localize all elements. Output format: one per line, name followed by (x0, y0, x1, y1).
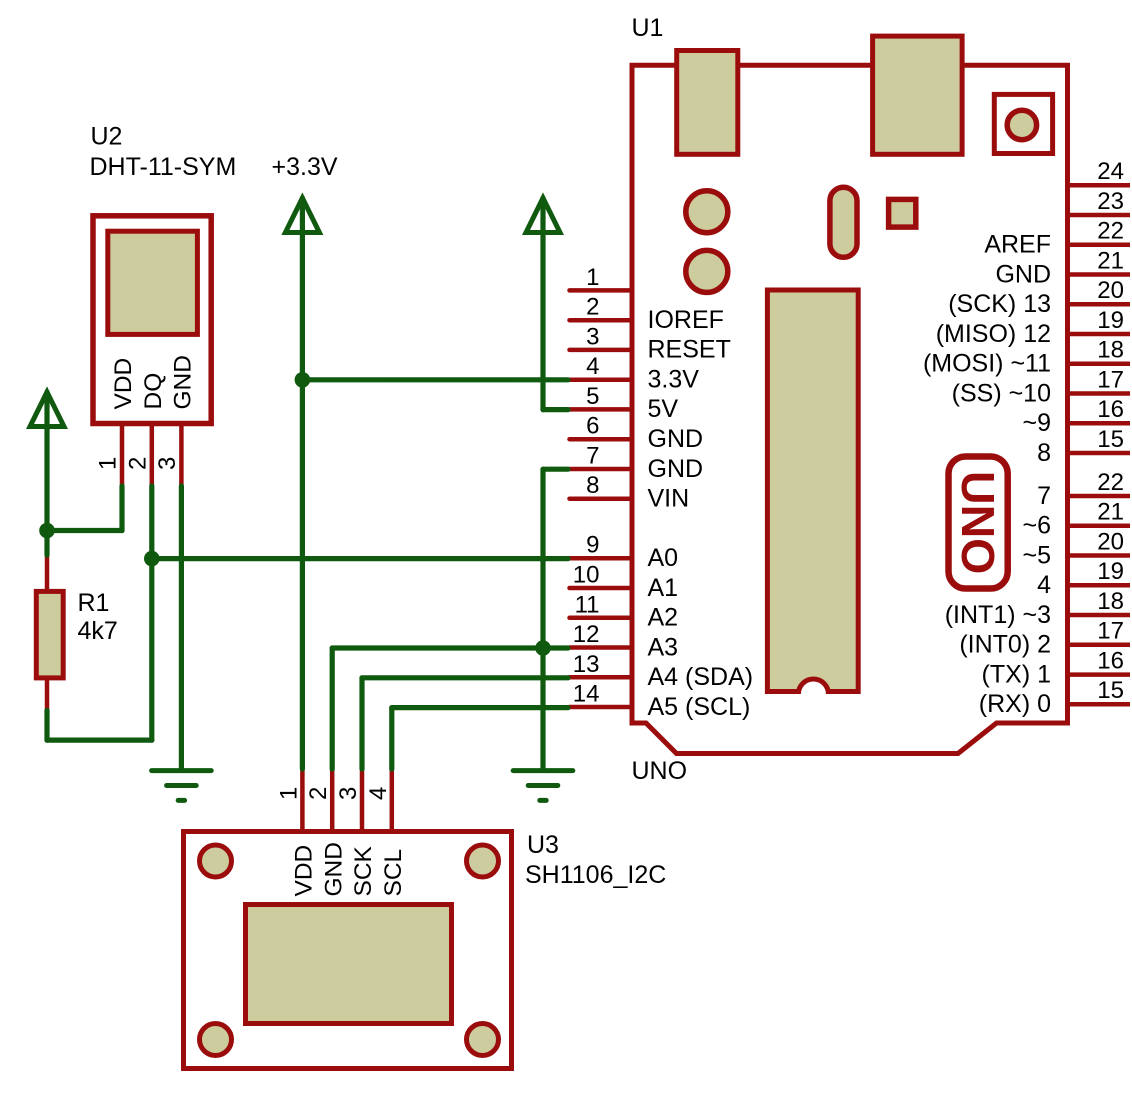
resistor R1 body (36, 591, 63, 678)
U1 right pin 18 stub (1070, 362, 1130, 367)
svg-text:18: 18 (1097, 337, 1124, 364)
svg-text:UNO: UNO (952, 471, 1004, 574)
U1 pin 11 stub (570, 616, 633, 621)
U1 right pin 23 stub (1070, 213, 1130, 218)
U1 pin 4 stub (570, 377, 633, 382)
svg-text:U3: U3 (527, 831, 559, 859)
wire +3.3V arrow to junction and R1 (44, 392, 49, 555)
svg-text:23: 23 (1097, 188, 1124, 215)
svg-text:11: 11 (575, 591, 600, 618)
U1 USB connector (677, 51, 738, 155)
svg-text:22: 22 (1097, 469, 1124, 496)
U1 pin 12 stub (570, 645, 633, 650)
junction node +3.3V / R1 / U2-VDD (39, 523, 55, 539)
svg-text:3.3V: 3.3V (648, 366, 700, 394)
svg-text:17: 17 (1097, 366, 1124, 393)
svg-text:(INT0) 2: (INT0) 2 (959, 631, 1051, 659)
wire DQ to A0 (152, 556, 568, 561)
svg-text:7: 7 (1037, 482, 1051, 510)
svg-text:17: 17 (1097, 618, 1124, 645)
svg-text:VDD: VDD (291, 845, 318, 897)
svg-text:1: 1 (95, 457, 122, 470)
U1 pin 7 stub (570, 467, 633, 472)
U1 right pin 22 stub (1070, 242, 1130, 247)
svg-text:UNO: UNO (632, 757, 688, 785)
svg-text:RESET: RESET (648, 336, 731, 364)
svg-text:GND: GND (170, 355, 197, 409)
U1 IC notch (798, 679, 828, 694)
U1 right pin 22 stub (1070, 494, 1130, 499)
U1 ATmega IC rectangle (767, 290, 858, 692)
U1 right pin 21 stub (1070, 524, 1130, 529)
R1 bottom stub (45, 678, 50, 710)
U3 mounting hole bottom-left (200, 1024, 232, 1056)
U1 right pin 20 stub (1070, 553, 1130, 558)
U1 mounting hole bottom (686, 250, 728, 292)
svg-text:3: 3 (586, 323, 599, 350)
sensor U2 (DHT-11-SYM) body (93, 216, 211, 424)
svg-text:21: 21 (1097, 499, 1124, 526)
U1 pin 1 stub (570, 288, 633, 293)
U3 pin 4 stub (390, 769, 395, 832)
U1 pin 9 stub (570, 556, 633, 561)
svg-text:~6: ~6 (1022, 512, 1051, 540)
svg-text:21: 21 (1097, 247, 1124, 274)
svg-text:20: 20 (1097, 277, 1124, 304)
U1 reset button circle (1007, 110, 1036, 139)
svg-text:19: 19 (1097, 558, 1124, 585)
svg-text:22: 22 (1097, 218, 1124, 245)
svg-text:A1: A1 (648, 574, 679, 602)
display U3 (SH1106_I2C) body (184, 832, 512, 1069)
IC U1 (Arduino UNO) (632, 65, 1068, 753)
svg-text:15: 15 (1097, 426, 1124, 453)
U2 pin 3 stub (179, 426, 184, 486)
wire R1 bottom vertical (44, 710, 49, 740)
U1 power jack (873, 36, 963, 154)
svg-text:4: 4 (586, 353, 599, 380)
svg-text:~5: ~5 (1022, 541, 1051, 569)
wire U3 GND vertical (330, 648, 335, 769)
+3.3V supply arrow left (30, 392, 64, 427)
U1 right pin 24 stub (1070, 183, 1130, 188)
svg-text:(MISO) 12: (MISO) 12 (936, 320, 1051, 348)
svg-text:GND: GND (648, 455, 704, 483)
ground left (152, 771, 212, 801)
svg-text:4: 4 (365, 787, 392, 800)
svg-text:19: 19 (1097, 307, 1124, 334)
svg-text:3: 3 (335, 787, 362, 800)
svg-text:8: 8 (586, 472, 599, 499)
svg-text:24: 24 (1097, 158, 1124, 185)
wire U3 SCL to A5 horizontal (392, 705, 568, 710)
svg-text:10: 10 (573, 562, 600, 589)
svg-text:SCL: SCL (380, 849, 407, 897)
svg-text:GND: GND (995, 260, 1051, 288)
wire +3.3V arrow to U3 VDD vertical (300, 198, 305, 769)
U1 right pin 18 stub (1070, 613, 1130, 618)
U1 reset button square (994, 94, 1052, 153)
svg-text:GND: GND (648, 425, 704, 453)
U1 pin 3 stub (570, 348, 633, 353)
svg-text:12: 12 (573, 621, 600, 648)
wire U2 DQ vertical (149, 486, 154, 740)
wire U3 SCL vertical (389, 708, 394, 769)
svg-text:6: 6 (586, 413, 599, 440)
svg-text:DQ: DQ (140, 373, 167, 410)
svg-text:16: 16 (1097, 396, 1124, 423)
U1 small square component (889, 199, 916, 227)
wire U2 GND to ground (179, 486, 184, 769)
U1 pin 10 stub (570, 586, 633, 591)
U1 crystal pill (830, 187, 857, 257)
wire R1 to DQ horizontal (47, 737, 152, 742)
svg-text:14: 14 (573, 681, 600, 708)
svg-text:8: 8 (1037, 439, 1051, 467)
svg-text:16: 16 (1097, 647, 1124, 674)
svg-text:U1: U1 (632, 14, 664, 42)
wire supply arrow to 5V vertical (540, 198, 545, 410)
svg-text:3: 3 (154, 457, 181, 470)
svg-text:VIN: VIN (648, 485, 690, 513)
svg-text:A2: A2 (648, 604, 679, 632)
junction node +3.3V / U1 3.3V (295, 372, 311, 388)
U3 mounting hole top-left (200, 845, 232, 877)
U1 pin 14 stub (570, 705, 633, 710)
junction node GND / U3 GND / A3 (535, 640, 551, 656)
svg-text:~9: ~9 (1022, 409, 1051, 437)
U1 right pin 15 stub (1070, 702, 1130, 707)
U3 mounting hole top-right (467, 845, 499, 877)
wire U2 VDD vertical (119, 486, 124, 531)
svg-text:AREF: AREF (984, 231, 1051, 259)
U1 right pin 19 stub (1070, 332, 1130, 337)
U1 pin 5 stub (570, 407, 633, 412)
svg-text:SCK: SCK (350, 845, 377, 896)
U1 right pin 15 stub (1070, 451, 1130, 456)
svg-text:U2: U2 (91, 123, 123, 151)
supply arrow right (526, 198, 560, 233)
U1 right pin 19 stub (1070, 583, 1130, 588)
svg-text:4k7: 4k7 (78, 617, 118, 645)
U1 pin 2 stub (570, 318, 633, 323)
U3 pin 1 stub (300, 769, 305, 832)
svg-text:DHT-11-SYM: DHT-11-SYM (90, 153, 237, 181)
U1 right pin 17 stub (1070, 391, 1130, 396)
svg-text:7: 7 (586, 443, 599, 470)
svg-text:2: 2 (586, 294, 599, 321)
svg-text:20: 20 (1097, 528, 1124, 555)
svg-text:4: 4 (1037, 571, 1051, 599)
+3.3V supply arrow middle (285, 198, 319, 233)
U1 pin 6 stub (570, 437, 633, 442)
ground right (513, 771, 573, 801)
U1 mounting hole top (686, 191, 728, 233)
wire U3 GND to A3 horizontal (332, 645, 568, 650)
svg-text:IOREF: IOREF (648, 306, 724, 334)
svg-text:(MOSI) ~11: (MOSI) ~11 (923, 350, 1051, 378)
wire U3 SCK vertical (359, 678, 364, 769)
U3 pin 2 stub (330, 769, 335, 832)
wire elbow to 5V pin (543, 407, 568, 412)
svg-text:R1: R1 (78, 589, 110, 617)
svg-text:(TX) 1: (TX) 1 (982, 660, 1051, 688)
svg-text:SH1106_I2C: SH1106_I2C (525, 861, 666, 889)
U3 pin 3 stub (360, 769, 365, 832)
svg-text:+3.3V: +3.3V (272, 153, 338, 181)
U1 right pin 16 stub (1070, 672, 1130, 677)
wire U3 SCK to A4 horizontal (362, 675, 568, 680)
U3 display window (246, 905, 452, 1024)
svg-text:2: 2 (305, 787, 332, 800)
svg-text:13: 13 (573, 651, 600, 678)
svg-text:GND: GND (320, 842, 347, 896)
svg-text:5V: 5V (648, 395, 679, 423)
svg-text:(SCK) 13: (SCK) 13 (948, 290, 1051, 318)
U1 UNO badge pill (949, 457, 1008, 589)
svg-text:A4 (SDA): A4 (SDA) (648, 663, 754, 691)
svg-text:2: 2 (124, 457, 151, 470)
U1 right pin 21 stub (1070, 272, 1130, 277)
wire U1 GND to ground vertical (540, 469, 545, 769)
U1 pin 8 stub (570, 496, 633, 501)
U1 body outline (632, 65, 1068, 753)
svg-text:(INT1) ~3: (INT1) ~3 (945, 601, 1051, 629)
wire +3.3V to U1 3.3V pin (302, 377, 568, 382)
svg-text:A5 (SCL): A5 (SCL) (648, 693, 751, 721)
svg-text:5: 5 (586, 383, 599, 410)
svg-text:1: 1 (586, 264, 599, 291)
U1 right pin 20 stub (1070, 302, 1130, 307)
U1 right pin 16 stub (1070, 421, 1130, 426)
svg-text:VDD: VDD (110, 358, 137, 410)
U2 pin 2 stub (150, 426, 155, 486)
U2 inner sensor window (108, 231, 198, 334)
U3 mounting hole bottom-right (467, 1024, 499, 1056)
svg-text:1: 1 (275, 787, 302, 800)
svg-text:18: 18 (1097, 588, 1124, 615)
svg-text:9: 9 (586, 532, 599, 559)
svg-text:(RX) 0: (RX) 0 (979, 690, 1051, 718)
svg-text:A3: A3 (648, 633, 679, 661)
junction node DQ / A0 (144, 551, 160, 567)
svg-text:15: 15 (1097, 677, 1124, 704)
wire junction to U2 VDD horizontal (47, 528, 122, 533)
svg-text:(SS) ~10: (SS) ~10 (952, 379, 1051, 407)
wire U1 GND pin elbow (543, 467, 568, 472)
U2 pin 1 stub (120, 426, 125, 486)
svg-text:A0: A0 (648, 544, 679, 572)
U1 pin 13 stub (570, 675, 633, 680)
U1 right pin 17 stub (1070, 643, 1130, 648)
R1 top stub (45, 555, 50, 591)
